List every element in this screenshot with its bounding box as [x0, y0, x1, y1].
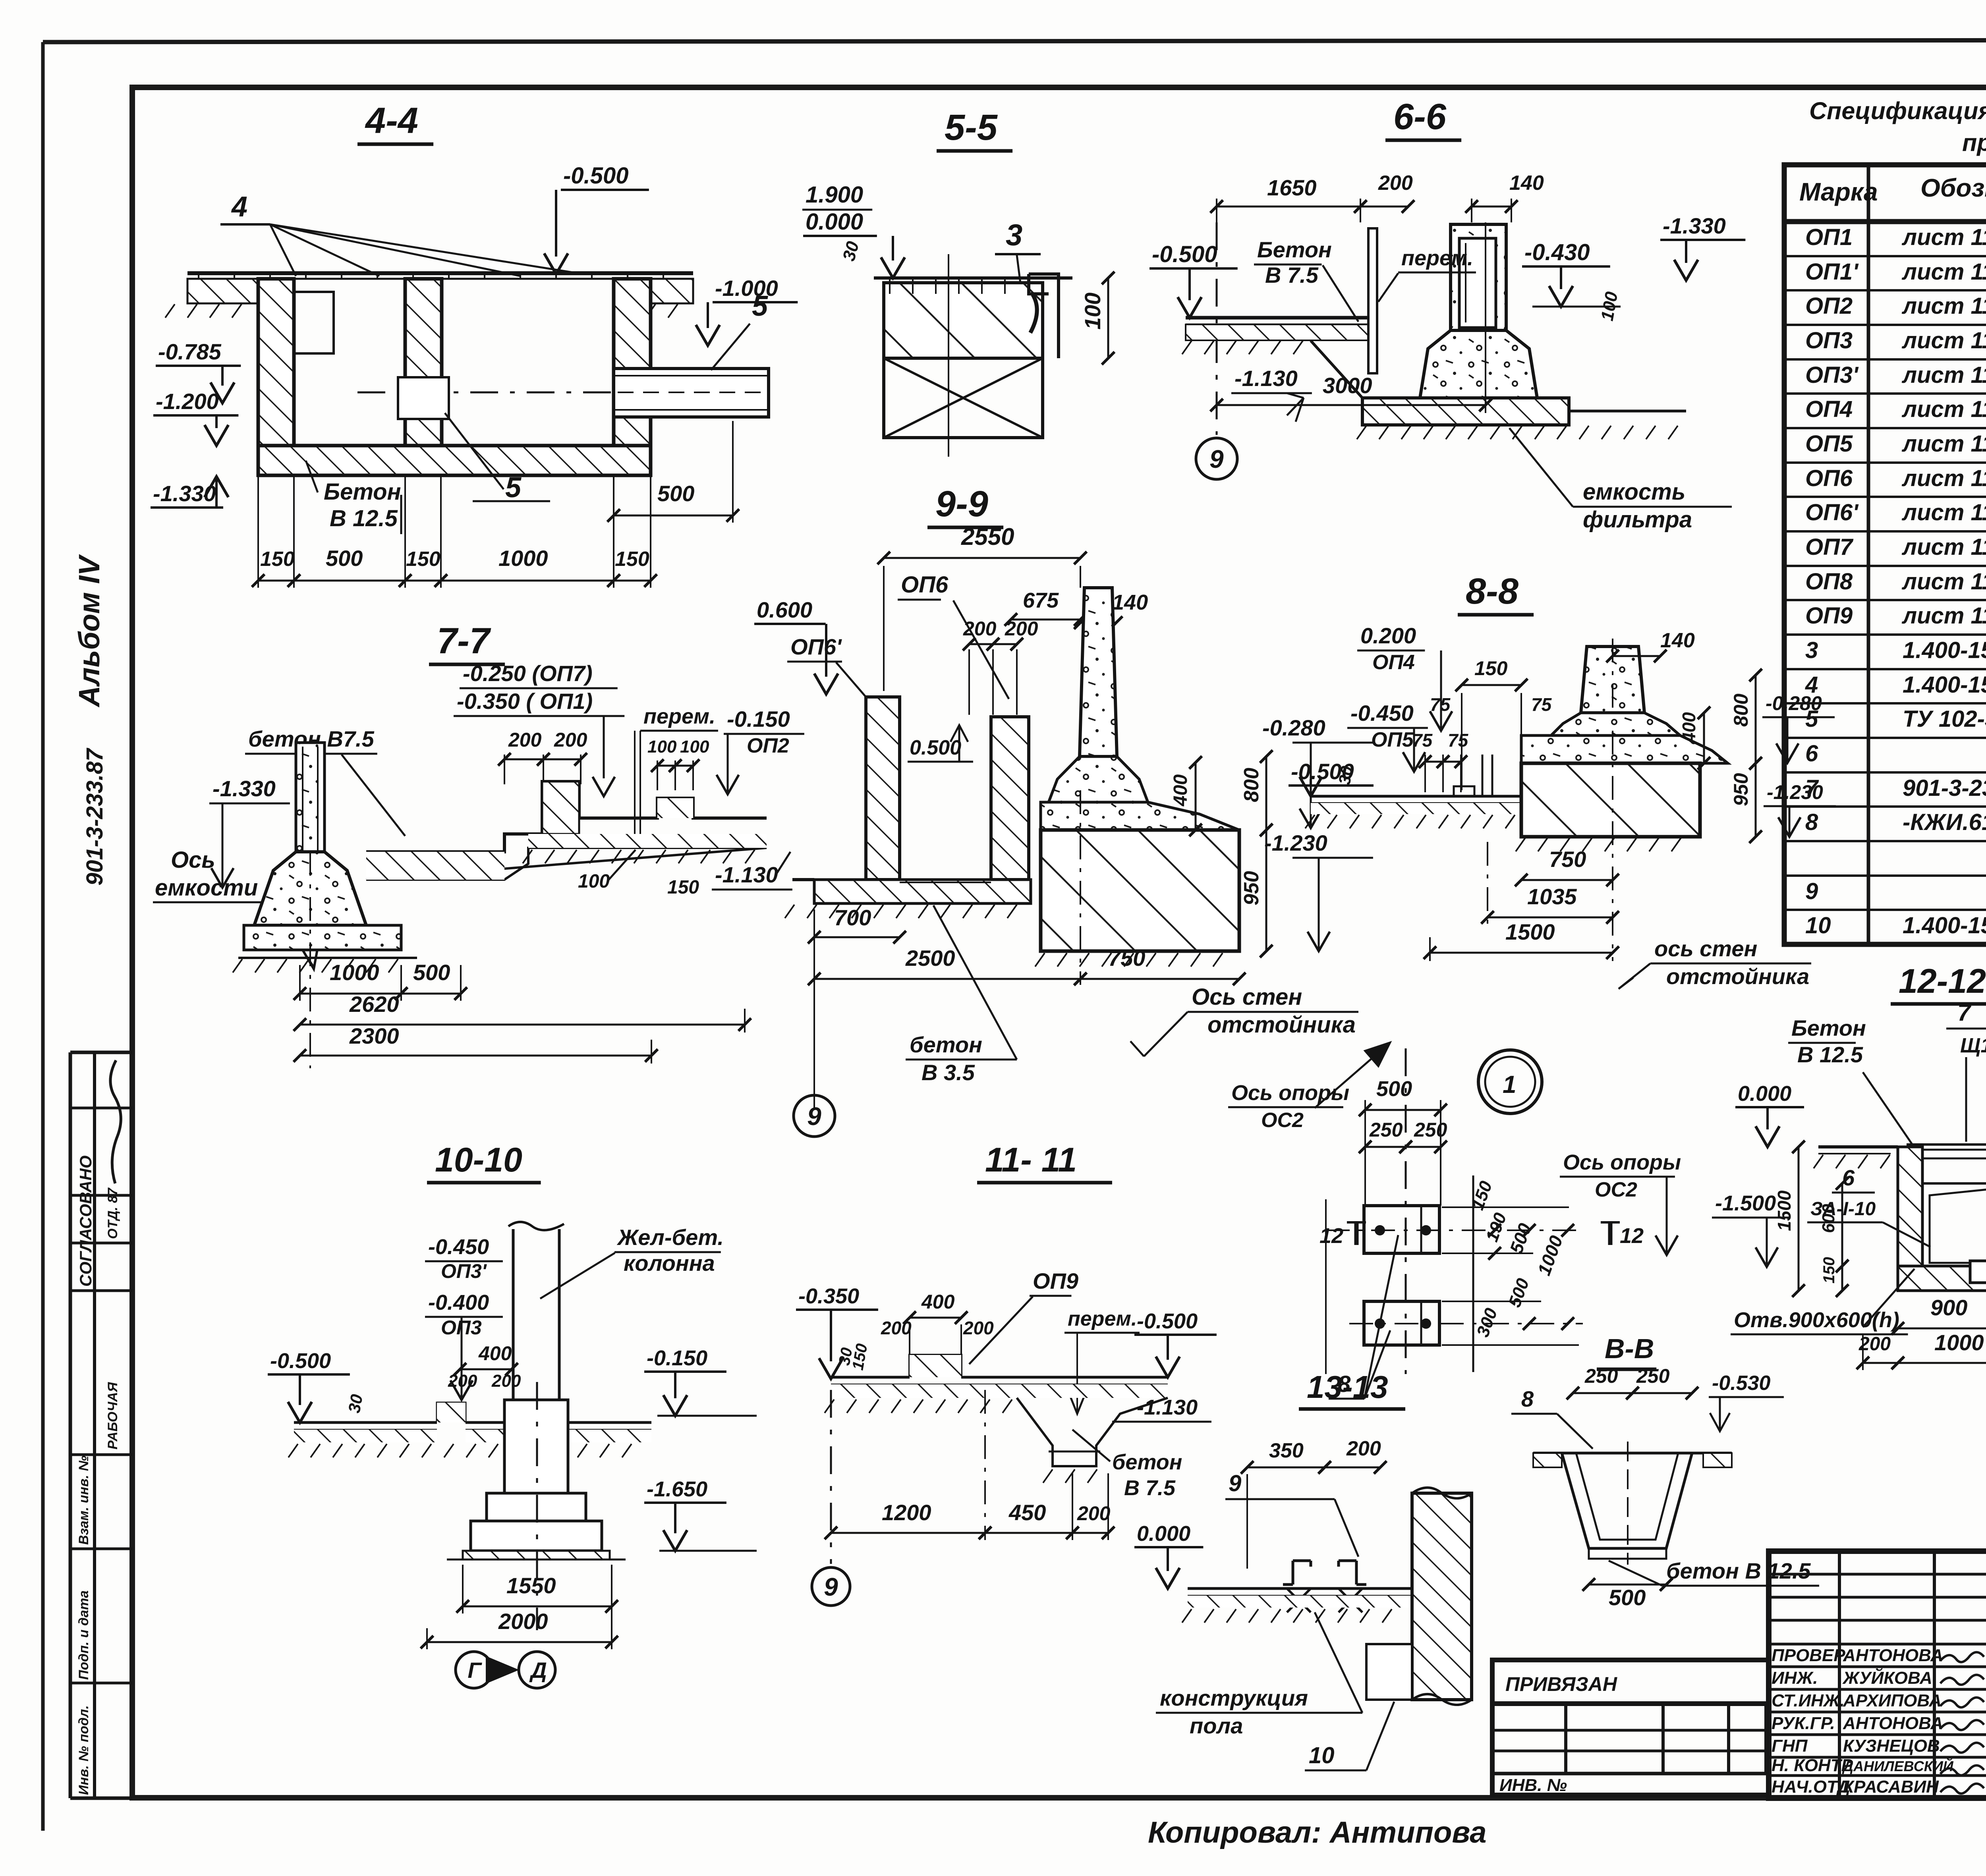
steel lid over pit	[1907, 1143, 1986, 1146]
svg-text:5: 5	[505, 472, 522, 504]
svg-text:1500: 1500	[1505, 919, 1555, 944]
svg-text:0.600: 0.600	[757, 597, 812, 622]
svg-text:5-5: 5-5	[945, 107, 998, 148]
footing steps	[504, 1400, 568, 1493]
svg-text:Жел-бет.: Жел-бет.	[616, 1225, 724, 1250]
svg-text:ОП8: ОП8	[1805, 569, 1853, 594]
svg-text:3000: 3000	[1323, 373, 1372, 398]
svg-text:400: 400	[478, 1342, 512, 1365]
svg-text:-0.280: -0.280	[1766, 692, 1822, 714]
svg-text:приямков, бетонных опор.: приямков, бетонных опор.	[1962, 129, 1986, 156]
svg-text:9: 9	[1805, 878, 1818, 904]
svg-text:500: 500	[657, 481, 694, 506]
node circle 1	[1478, 1050, 1542, 1114]
G-D circles	[456, 1652, 492, 1688]
svg-text:950: 950	[1730, 773, 1752, 806]
svg-text:7: 7	[1957, 999, 1972, 1026]
svg-text:9: 9	[824, 1573, 838, 1601]
svg-text:-1.500: -1.500	[1715, 1191, 1776, 1215]
svg-text:-0.500: -0.500	[270, 1349, 331, 1373]
svg-text:9: 9	[1229, 1471, 1241, 1496]
svg-text:-1.130: -1.130	[715, 862, 778, 887]
top dims	[1216, 199, 1217, 222]
svg-text:-1.230: -1.230	[1767, 781, 1823, 803]
svg-text:бетон: бетон	[1112, 1450, 1182, 1474]
svg-text:2000: 2000	[498, 1609, 548, 1634]
concrete pier	[1451, 224, 1506, 332]
svg-text:Альбом IV: Альбом IV	[73, 554, 106, 708]
svg-text:КУЗНЕЦОВ: КУЗНЕЦОВ	[1843, 1736, 1940, 1756]
svg-text:ГНП: ГНП	[1772, 1736, 1808, 1756]
svg-text:400: 400	[1679, 712, 1699, 743]
svg-text:4-4: 4-4	[365, 100, 418, 141]
svg-text:140: 140	[1112, 591, 1148, 614]
big foundation block	[1041, 830, 1239, 951]
vertical dims 400 800 950	[1195, 762, 1197, 830]
svg-text:ПРОВЕР.: ПРОВЕР.	[1772, 1646, 1848, 1665]
svg-text:1.400-15.В1.540-01: 1.400-15.В1.540-01	[1903, 637, 1986, 663]
svg-text:150: 150	[1474, 657, 1508, 679]
central pier column	[1080, 588, 1117, 757]
svg-text:-1.230: -1.230	[1264, 830, 1327, 855]
svg-text:0.500: 0.500	[910, 736, 961, 759]
svg-text:ОП9: ОП9	[1033, 1268, 1078, 1293]
svg-text:-КЖИ.61.08.00: -КЖИ.61.08.00	[1903, 809, 1986, 835]
svg-text:перем.: перем.	[1068, 1307, 1137, 1330]
svg-text:250: 250	[1636, 1365, 1670, 1387]
svg-text:1500: 1500	[1774, 1190, 1795, 1231]
svg-text:Бетон: Бетон	[324, 479, 401, 505]
svg-text:250: 250	[1369, 1119, 1403, 1141]
svg-text:ОП6': ОП6'	[1805, 500, 1859, 525]
svg-text:Ось: Ось	[171, 847, 215, 873]
svg-text:200: 200	[1378, 172, 1413, 195]
svg-text:бетон: бетон	[910, 1032, 982, 1057]
svg-text:АНТОНОВА: АНТОНОВА	[1843, 1646, 1943, 1665]
concrete column	[1581, 647, 1644, 713]
svg-text:ОП6: ОП6	[901, 572, 949, 598]
svg-text:Инв. № подл.: Инв. № подл.	[76, 1705, 91, 1795]
svg-text:150: 150	[1820, 1257, 1838, 1283]
vdims 400 800 950	[1703, 713, 1705, 763]
svg-text:-1.330: -1.330	[213, 776, 276, 801]
svg-text:ИНЖ.: ИНЖ.	[1772, 1668, 1818, 1688]
svg-text:ОП6: ОП6	[1805, 465, 1853, 491]
pit bottom	[1898, 1266, 1986, 1291]
svg-text:200: 200	[448, 1371, 477, 1391]
svg-text:Обозначение: Обозначение	[1920, 174, 1986, 202]
svg-text:лист 11, 12: лист 11, 12	[1901, 465, 1986, 491]
3000 dim	[1217, 404, 1486, 406]
svg-text:350: 350	[1269, 1439, 1304, 1462]
svg-text:150: 150	[615, 548, 649, 571]
svg-text:8-8: 8-8	[1466, 571, 1519, 612]
svg-text:200: 200	[508, 729, 542, 751]
pit middle wall	[405, 279, 442, 457]
svg-text:675: 675	[1023, 589, 1059, 612]
steel angle	[1029, 274, 1059, 358]
dim 100 right	[1107, 278, 1109, 358]
bottom dims	[814, 936, 900, 938]
floor band right of foundation	[366, 782, 767, 852]
svg-text:Н. КОНТР: Н. КОНТР	[1772, 1756, 1853, 1775]
floor with curb	[831, 1376, 910, 1379]
floor lines	[294, 1421, 437, 1424]
axis	[536, 1382, 538, 1630]
svg-text:отстойника: отстойника	[1207, 1012, 1356, 1038]
svg-text:100: 100	[647, 737, 677, 757]
svg-text:ТУ 102-39-78: ТУ 102-39-78	[1903, 706, 1986, 732]
sidebar grid	[70, 1052, 132, 1798]
svg-text:200: 200	[491, 1371, 521, 1391]
svg-text:емкости: емкости	[155, 875, 258, 901]
svg-text:лист 11, 12: лист 11, 12	[1901, 224, 1986, 250]
svg-text:2550: 2550	[961, 523, 1014, 550]
svg-text:6: 6	[1805, 741, 1818, 766]
svg-text:-0.280: -0.280	[1262, 715, 1325, 740]
floor line	[1188, 1587, 1412, 1590]
svg-text:-0.530: -0.530	[1712, 1372, 1771, 1395]
svg-text:75: 75	[1412, 730, 1433, 751]
svg-text:1035: 1035	[1527, 884, 1577, 909]
svg-text:ОП3: ОП3	[1805, 328, 1853, 353]
svg-text:800: 800	[1730, 693, 1752, 727]
svg-text:1550: 1550	[506, 1573, 556, 1598]
svg-text:ОП2: ОП2	[1805, 293, 1853, 319]
svg-text:10: 10	[1805, 913, 1831, 938]
svg-text:3: 3	[1006, 218, 1022, 252]
svg-text:Щ1: Щ1	[1960, 1034, 1986, 1057]
svg-text:-1.650: -1.650	[647, 1477, 707, 1501]
vdims 1500 600 150	[1798, 1147, 1800, 1291]
svg-text:Г: Г	[468, 1658, 482, 1683]
svg-text:500: 500	[1376, 1077, 1412, 1101]
svg-text:75: 75	[1448, 730, 1469, 751]
svg-text:бетон В 12.5: бетон В 12.5	[1666, 1558, 1811, 1583]
channel rails	[1283, 1561, 1311, 1585]
svg-text:-1.200: -1.200	[156, 389, 219, 414]
svg-text:75: 75	[1430, 694, 1451, 715]
trapezoid liner	[1562, 1453, 1692, 1548]
bottom dims	[1521, 879, 1613, 881]
floor slab left	[1186, 316, 1370, 320]
svg-text:лист 11, 12: лист 11, 12	[1901, 259, 1986, 285]
bottom dims	[1898, 1328, 1986, 1330]
central post with concrete	[296, 743, 325, 886]
svg-text:Взам. инв. №: Взам. инв. №	[76, 1455, 91, 1545]
svg-text:2300: 2300	[349, 1023, 399, 1048]
svg-text:лист 11, 12: лист 11, 12	[1901, 328, 1986, 353]
svg-text:100: 100	[1080, 293, 1105, 330]
wall right	[1412, 1493, 1472, 1700]
svg-text:-1.130: -1.130	[1137, 1395, 1198, 1419]
svg-text:ИНВ. №: ИНВ. №	[1499, 1776, 1567, 1795]
anchor plate upper	[1364, 1206, 1439, 1253]
svg-text:колонна: колонна	[624, 1251, 715, 1276]
svg-text:-0.150: -0.150	[647, 1346, 707, 1370]
svg-text:1.400-15.В1.410-05: 1.400-15.В1.410-05	[1903, 913, 1986, 938]
svg-text:КРАСАВИН: КРАСАВИН	[1843, 1777, 1939, 1797]
svg-text:-0.350 ( ОП1): -0.350 ( ОП1)	[457, 689, 593, 714]
svg-text:200: 200	[881, 1318, 912, 1338]
svg-text:9-9: 9-9	[935, 484, 988, 524]
svg-text:Марка: Марка	[1799, 178, 1878, 206]
svg-text:Ось опоры: Ось опоры	[1563, 1150, 1681, 1174]
svg-text:Отв.900х600(h): Отв.900х600(h)	[1734, 1308, 1899, 1332]
svg-text:-0.150: -0.150	[727, 706, 790, 731]
svg-text:150: 150	[260, 548, 295, 571]
svg-text:отстойника: отстойника	[1666, 964, 1809, 989]
floor slab	[1818, 1145, 1898, 1148]
top line	[874, 276, 1072, 280]
svg-text:12: 12	[1319, 1224, 1343, 1248]
column shaft	[512, 1229, 515, 1400]
extension verticals	[1472, 1175, 1474, 1372]
svg-text:-1.330: -1.330	[1663, 213, 1726, 238]
svg-text:13-13: 13-13	[1307, 1369, 1388, 1405]
svg-text:Спецификация элементов к схем: Спецификация элементов к схеме расположе…	[1809, 97, 1986, 124]
svg-text:150: 150	[406, 548, 440, 571]
svg-text:2620: 2620	[349, 992, 399, 1017]
haunches	[1551, 713, 1680, 735]
pit drop	[1017, 1398, 1168, 1466]
svg-text:ОП5: ОП5	[1371, 728, 1414, 751]
svg-text:-0.350: -0.350	[798, 1284, 859, 1308]
svg-text:ОП5: ОП5	[1805, 431, 1853, 457]
svg-text:В 12.5: В 12.5	[330, 506, 398, 531]
svg-text:9: 9	[1209, 445, 1224, 473]
X column below	[884, 358, 1043, 438]
svg-text:РАБОЧАЯ: РАБОЧАЯ	[105, 1382, 120, 1449]
pipe (item 5)	[614, 369, 769, 417]
liner band	[1521, 735, 1728, 763]
slope to pit	[1311, 341, 1362, 398]
svg-text:перем.: перем.	[1401, 246, 1473, 270]
liner band on foundation	[1041, 802, 1239, 830]
svg-text:4: 4	[231, 191, 247, 223]
svg-text:30: 30	[1335, 764, 1356, 786]
dims	[831, 1532, 985, 1534]
svg-text:ось стен: ось стен	[1654, 936, 1757, 961]
svg-text:Бетон: Бетон	[1257, 237, 1332, 262]
floor slab	[792, 878, 814, 881]
svg-text:Подп. и дата: Подп. и дата	[76, 1590, 91, 1680]
svg-text:0.000: 0.000	[1738, 1082, 1791, 1106]
svg-text:лист 11, 12: лист 11, 12	[1901, 569, 1986, 594]
svg-text:-0.450: -0.450	[1350, 701, 1414, 726]
svg-text:-1.130: -1.130	[1234, 366, 1298, 391]
svg-text:-0.430: -0.430	[1524, 239, 1590, 265]
svg-text:2500: 2500	[905, 946, 955, 971]
svg-text:ДАНИЛЕВСКИЙ: ДАНИЛЕВСКИЙ	[1842, 1758, 1954, 1774]
svg-text:11- 11: 11- 11	[985, 1141, 1077, 1179]
svg-text:НАЧ.ОТД: НАЧ.ОТД	[1772, 1777, 1850, 1797]
svg-text:-0.400: -0.400	[428, 1291, 489, 1314]
vertical axis	[1405, 1048, 1407, 1374]
svg-text:500: 500	[413, 960, 450, 985]
svg-text:0.000: 0.000	[1137, 1522, 1190, 1546]
svg-text:0.200: 0.200	[1360, 623, 1416, 648]
svg-text:ОС2: ОС2	[1595, 1178, 1637, 1201]
svg-text:лист 11, 12: лист 11, 12	[1901, 534, 1986, 560]
svg-text:СТ.ИНЖ.: СТ.ИНЖ.	[1772, 1691, 1845, 1710]
svg-text:200: 200	[1346, 1437, 1381, 1460]
svg-text:1.900: 1.900	[806, 182, 863, 208]
hatched beam	[884, 283, 1043, 358]
svg-text:ОП3': ОП3'	[1805, 362, 1859, 388]
svg-text:емкость: емкость	[1583, 479, 1685, 505]
svg-text:250: 250	[1414, 1119, 1447, 1141]
svg-text:ОП7: ОП7	[1805, 534, 1854, 560]
svg-text:лист 11, 12: лист 11, 12	[1901, 500, 1986, 525]
foundation trapezoid	[254, 852, 366, 925]
liner box	[1922, 1183, 1986, 1266]
svg-text:400: 400	[1170, 774, 1191, 807]
svg-text:-0.785: -0.785	[158, 339, 222, 364]
svg-text:ОП1': ОП1'	[1805, 259, 1859, 285]
svg-text:8: 8	[1805, 809, 1818, 835]
svg-text:конструкция: конструкция	[1160, 1685, 1308, 1710]
svg-text:-0.500: -0.500	[1137, 1309, 1198, 1333]
dim 500 right	[614, 515, 733, 517]
svg-text:750: 750	[1549, 847, 1586, 872]
base slab	[1362, 398, 1569, 425]
svg-text:12: 12	[1620, 1224, 1644, 1248]
svg-text:0.000: 0.000	[806, 209, 863, 235]
dim 500	[1589, 1584, 1666, 1586]
svg-text:АНТОНОВА: АНТОНОВА	[1843, 1714, 1943, 1733]
svg-text:ОП3': ОП3'	[441, 1260, 487, 1282]
svg-text:1200: 1200	[882, 1500, 931, 1525]
svg-text:1000: 1000	[498, 546, 548, 571]
svg-text:901-3-233.87-КЖИ.61.0.1.00: 901-3-233.87-КЖИ.61.0.1.00	[1903, 775, 1986, 801]
svg-text:1.400-15.В1.540-09: 1.400-15.В1.540-09	[1903, 672, 1986, 698]
svg-text:900: 900	[1930, 1295, 1967, 1320]
svg-text:СОГЛАСОВАНО: СОГЛАСОВАНО	[76, 1156, 95, 1287]
svg-text:В 7.5: В 7.5	[1265, 262, 1319, 288]
svg-text:400: 400	[921, 1291, 955, 1313]
svg-text:9: 9	[807, 1102, 821, 1131]
svg-text:3: 3	[1805, 637, 1818, 663]
svg-text:-0.500: -0.500	[1152, 241, 1217, 267]
svg-text:12-12: 12-12	[1899, 962, 1986, 1000]
svg-text:450: 450	[1008, 1500, 1046, 1525]
svg-text:250: 250	[1584, 1365, 1618, 1387]
svg-text:лист 11, 12: лист 11, 12	[1901, 603, 1986, 629]
svg-text:Бетон: Бетон	[1791, 1015, 1866, 1040]
svg-text:200: 200	[554, 729, 587, 751]
svg-text:фильтра: фильтра	[1583, 507, 1692, 533]
svg-text:950: 950	[1240, 871, 1263, 905]
svg-text:6-6: 6-6	[1393, 97, 1447, 137]
left upstand wall	[866, 697, 900, 880]
svg-text:РУК.ГР.: РУК.ГР.	[1772, 1714, 1835, 1733]
svg-text:30: 30	[345, 1393, 366, 1414]
svg-text:140: 140	[1509, 172, 1544, 195]
top dim 2550	[884, 557, 1080, 559]
pit walls	[1898, 1147, 1922, 1290]
svg-text:ОП6': ОП6'	[790, 634, 842, 659]
svg-text:750: 750	[1108, 946, 1145, 971]
svg-text:200: 200	[1077, 1502, 1111, 1525]
svg-text:Копировал: Антипова: Копировал: Антипова	[1148, 1816, 1487, 1849]
svg-text:лист 11, 12: лист 11, 12	[1901, 362, 1986, 388]
svg-text:Д: Д	[529, 1658, 547, 1683]
svg-text:100: 100	[680, 737, 709, 757]
svg-text:600: 600	[1819, 1204, 1838, 1233]
svg-text:В-В: В-В	[1605, 1333, 1654, 1364]
svg-text:-0.500: -0.500	[563, 163, 628, 189]
svg-text:100: 100	[578, 871, 610, 892]
svg-text:140: 140	[1660, 629, 1695, 652]
svg-text:-1.000: -1.000	[715, 276, 778, 301]
svg-text:ОТД. 87: ОТД. 87	[105, 1187, 120, 1239]
svg-text:ОП2: ОП2	[747, 734, 789, 757]
svg-text:700: 700	[834, 905, 871, 930]
svg-text:ПРИВЯЗАН: ПРИВЯЗАН	[1505, 1673, 1617, 1695]
svg-text:1650: 1650	[1267, 175, 1317, 200]
right upstand wall	[991, 717, 1029, 880]
privyazan box	[1492, 1660, 1769, 1795]
svg-text:1: 1	[1503, 1071, 1516, 1098]
anchor plate lower	[1364, 1301, 1439, 1345]
svg-text:75: 75	[1531, 694, 1552, 715]
svg-text:150: 150	[667, 877, 699, 898]
pit left wall	[258, 279, 294, 457]
svg-text:10: 10	[1309, 1743, 1335, 1768]
pit bottom slab	[258, 446, 651, 475]
svg-text:ЖУЙКОВА: ЖУЙКОВА	[1842, 1668, 1932, 1688]
pier haunches	[1049, 757, 1148, 802]
svg-text:1000: 1000	[1934, 1330, 1984, 1355]
svg-text:500: 500	[1609, 1585, 1646, 1610]
svg-text:8: 8	[1521, 1386, 1534, 1411]
svg-text:В 7.5: В 7.5	[1124, 1476, 1176, 1500]
svg-text:перем.: перем.	[643, 704, 715, 728]
svg-text:-0.450: -0.450	[428, 1235, 489, 1259]
dim chain 4-4	[257, 477, 259, 588]
svg-text:200: 200	[963, 1318, 994, 1338]
svg-text:ОП1: ОП1	[1805, 224, 1853, 250]
svg-text:лист 11, 12: лист 11, 12	[1901, 293, 1986, 319]
svg-text:В 12.5: В 12.5	[1797, 1042, 1863, 1067]
svg-text:-0.250 (ОП7): -0.250 (ОП7)	[463, 661, 593, 686]
floor slab	[1311, 795, 1521, 798]
top line + hatch	[1533, 1452, 1732, 1455]
dims 1550 2000	[463, 1606, 612, 1608]
svg-text:200: 200	[963, 618, 997, 640]
svg-text:лист 11, 12: лист 11, 12	[1901, 396, 1986, 422]
svg-text:901-3-233.87: 901-3-233.87	[82, 747, 108, 886]
svg-text:800: 800	[1240, 768, 1263, 802]
svg-text:ОП4: ОП4	[1372, 651, 1415, 674]
svg-text:ОП9: ОП9	[1805, 603, 1853, 629]
svg-text:Ось стен: Ось стен	[1192, 984, 1302, 1010]
svg-text:1000: 1000	[330, 960, 379, 985]
svg-text:7-7: 7-7	[437, 621, 491, 661]
svg-text:пола: пола	[1190, 1713, 1243, 1738]
svg-text:лист 11, 12: лист 11, 12	[1901, 431, 1986, 457]
pit right wall	[614, 279, 651, 457]
svg-text:ОС2: ОС2	[1261, 1109, 1304, 1132]
foundation block	[1521, 763, 1700, 837]
formwork pair	[1482, 755, 1484, 796]
svg-text:АРХИПОВА: АРХИПОВА	[1843, 1691, 1942, 1710]
svg-text:500: 500	[326, 546, 363, 571]
svg-text:В 3.5: В 3.5	[922, 1060, 975, 1085]
svg-text:200: 200	[1005, 618, 1038, 640]
bottom dim chains	[299, 965, 301, 1001]
